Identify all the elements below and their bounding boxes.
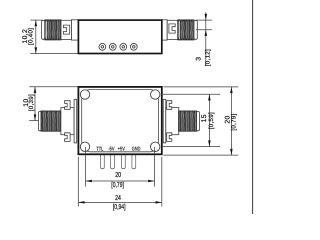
svg-text:[0,12]: [0,12] (204, 49, 211, 66)
top view: right SMA connector threads (178, 20, 194, 40)
front view: right SMA mounting plate (163, 99, 166, 143)
svg-text:[0,79]: [0,79] (231, 113, 238, 130)
thread serration front-left block (41, 111, 61, 113)
front view: right SMA flange (166, 108, 179, 135)
dimension 20 bottom line (86, 180, 155, 182)
svg-text:20: 20 (115, 170, 121, 179)
front view: left SMA flange (61, 108, 74, 135)
dimension 20 right line (230, 87, 232, 155)
front view: module body (78, 87, 161, 154)
dimension 10,2 [0,40] extension lines (30, 19, 43, 21)
dimension 20 right extension lines (163, 86, 238, 88)
front view: left SMA top bracket (65, 101, 71, 110)
thread glint front-right (179, 112, 181, 130)
dimension 10 [0,39] extension lines (29, 86, 78, 88)
top view: left SMA connector cap (42, 21, 45, 40)
top view: right SMA connector cap (194, 21, 197, 40)
thread serration front-right block (179, 111, 197, 113)
top view: left SMA center-pin recess detail (63, 25, 69, 34)
dimension 10 [0,39] line (34, 87, 36, 121)
svg-text:[0,40]: [0,40] (28, 28, 35, 45)
front view: right SMA top bracket (167, 101, 172, 110)
dimension 10,2 [0,40] line (35, 20, 37, 54)
svg-text:GND: GND (132, 147, 141, 153)
front view: right SMA bottom bracket (167, 133, 172, 142)
top view: right SMA center-pin recess detail (169, 24, 175, 33)
front view: screw hole top-right (151, 90, 160, 99)
front view: left SMA bottom bracket (65, 133, 71, 142)
dimension 3 [0,12] line (205, 12, 207, 66)
svg-text:-5V: -5V (108, 147, 114, 153)
front view: left SMA threads (41, 111, 61, 131)
dimension 15 [0,59] line (208, 94, 210, 146)
front view: left SMA cap (39, 112, 42, 131)
front view: right SMA cap (197, 112, 200, 131)
dimension 3 [0,12] extension lines (196, 19, 212, 21)
dimension 20 bottom extension lines (85, 147, 87, 187)
thread glint front-left (42, 112, 44, 130)
top view: feedthrough pin 1 (99, 43, 106, 50)
svg-text:+5V: +5V (118, 147, 125, 153)
dimension 24 line (78, 201, 162, 203)
top view: feedthrough pin 2 (109, 43, 116, 50)
top view: right SMA connector mid section (167, 20, 178, 39)
dimension 15 [0,59] extension lines (161, 93, 220, 95)
svg-text:3: 3 (195, 57, 202, 61)
svg-text:24: 24 (115, 193, 121, 202)
top view: right SMA connector base (162, 20, 167, 40)
top view: left SMA connector mid section (61, 20, 72, 39)
front view: pin 3 (122, 155, 126, 169)
front view: lid outline (82, 89, 159, 151)
thread glint top-left (45, 21, 47, 39)
front view: screw hole bottom-right (151, 142, 160, 151)
front view: pin 1 (101, 155, 105, 169)
thread glint top-right (178, 21, 180, 39)
top view: module body (78, 20, 161, 53)
top view: left SMA connector base (72, 20, 79, 40)
top view: feedthrough pin 4 (130, 43, 137, 50)
svg-text:[0,59]: [0,59] (208, 112, 215, 129)
top view: left SMA connector threads (45, 20, 61, 40)
svg-text:[0,94]: [0,94] (113, 203, 126, 211)
front view: pin 2 (111, 155, 115, 169)
svg-text:[0,39]: [0,39] (28, 94, 35, 111)
front view: screw hole top-left (80, 90, 89, 99)
svg-text:15: 15 (201, 114, 208, 122)
thread serration top-left block (45, 20, 61, 22)
front view: screw hole bottom-left (80, 142, 89, 151)
front view: left SMA mounting plate (74, 99, 77, 143)
top view: feedthrough pin 3 (120, 43, 127, 50)
dimension 24 extension lines (77, 157, 79, 207)
front view: right SMA threads (179, 111, 197, 131)
thread serration top-right block (178, 20, 194, 22)
front view: pin 4 (132, 155, 136, 169)
svg-text:[0,79]: [0,79] (111, 181, 124, 189)
svg-text:TTL: TTL (96, 147, 103, 153)
